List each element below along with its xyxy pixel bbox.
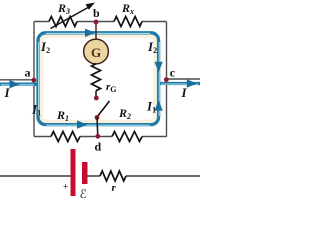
arrow: I2 on top run bbox=[85, 29, 96, 37]
wire: battery circuit right bbox=[126, 175, 200, 177]
svg-text:ℰ: ℰ bbox=[80, 187, 87, 200]
resistor R2 bbox=[112, 132, 142, 142]
cream inner glow of current loop bbox=[40, 35, 156, 123]
wire: bridge right side (c) bbox=[166, 22, 168, 137]
wire: rG to switch contact bbox=[95, 91, 97, 96]
wire: bridge bottom (a-d-c side) bbox=[34, 136, 167, 138]
wire: left feed into node a bbox=[0, 79, 34, 81]
arrow: current I entering (left) bbox=[10, 80, 20, 88]
arrow through R3 bbox=[51, 8, 89, 29]
wire: bridge rectangle top (a-b-c side) bbox=[34, 21, 167, 23]
svg-text:+: + bbox=[63, 182, 68, 192]
svg-text:r: r bbox=[112, 182, 117, 194]
svg-text:d: d bbox=[95, 140, 102, 154]
blue current loop bbox=[38, 33, 159, 125]
wire: switch to node d bbox=[96, 118, 99, 137]
svg-text:I: I bbox=[181, 85, 188, 100]
node d bbox=[95, 134, 100, 139]
resistor rG (vertical) bbox=[92, 64, 101, 91]
node b bbox=[94, 20, 99, 25]
arrow: current I exiting (right) bbox=[187, 79, 197, 87]
switch blade (open) bbox=[97, 101, 110, 117]
blue current entry stub bbox=[0, 83, 38, 86]
blue current exit stub bbox=[159, 82, 200, 85]
wire: right feed out of node c bbox=[166, 78, 200, 80]
wire: battery circuit left bbox=[0, 175, 71, 177]
resistor R1 bbox=[51, 132, 80, 142]
resistor Rx bbox=[114, 17, 142, 27]
arrow: I1 on bottom run bbox=[77, 120, 88, 128]
battery short plate (-) bbox=[82, 162, 88, 184]
node c bbox=[164, 77, 169, 82]
arrow: I2 down right side bbox=[154, 62, 162, 72]
svg-text:a: a bbox=[25, 66, 31, 80]
switch contact dot (upper) bbox=[94, 96, 99, 101]
wire: bridge left side (a) bbox=[33, 22, 35, 137]
wire: node b to galvanometer bbox=[95, 22, 97, 40]
battery long plate (+) bbox=[71, 149, 76, 196]
svg-text:G: G bbox=[91, 45, 101, 60]
arrow: I1 up right side bbox=[154, 100, 162, 110]
switch pivot dot (lower) bbox=[95, 115, 100, 120]
svg-text:c: c bbox=[170, 65, 176, 79]
svg-text:I: I bbox=[4, 85, 11, 100]
blue highlight lines bbox=[1, 33, 198, 125]
wire: battery to resistor r bbox=[88, 175, 101, 177]
resistor R3 (variable) bbox=[49, 17, 77, 27]
galvanometer G bbox=[84, 39, 109, 64]
node a bbox=[31, 78, 36, 83]
svg-text:b: b bbox=[93, 6, 100, 20]
resistor r (internal resistance) bbox=[100, 171, 126, 181]
